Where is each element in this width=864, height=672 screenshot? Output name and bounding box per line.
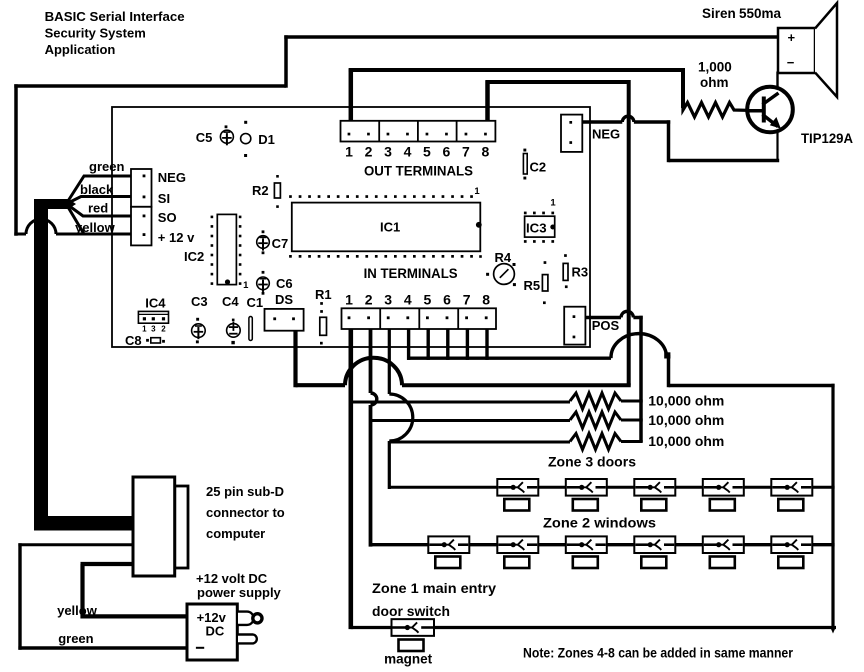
svg-text:DC: DC — [206, 624, 225, 639]
svg-text:SI: SI — [158, 191, 170, 206]
svg-text:yellow: yellow — [57, 603, 98, 618]
svg-text:−: − — [787, 55, 795, 70]
svg-text:3: 3 — [384, 144, 392, 160]
svg-text:C8: C8 — [125, 333, 142, 348]
svg-text:+: + — [788, 30, 796, 45]
svg-text:IC2: IC2 — [184, 249, 204, 264]
svg-text:8: 8 — [482, 144, 490, 160]
svg-text:D1: D1 — [258, 132, 275, 147]
svg-text:10,000 ohm: 10,000 ohm — [648, 413, 724, 428]
svg-text:4: 4 — [404, 292, 412, 308]
svg-text:R3: R3 — [572, 265, 589, 280]
svg-text:4: 4 — [404, 144, 412, 160]
svg-text:6: 6 — [443, 144, 451, 160]
svg-text:ohm: ohm — [700, 75, 729, 90]
svg-text:R2: R2 — [252, 183, 269, 198]
svg-text:IN TERMINALS: IN TERMINALS — [364, 266, 458, 281]
svg-text:Zone 2 windows: Zone 2 windows — [543, 516, 656, 531]
svg-text:8: 8 — [482, 292, 490, 308]
svg-text:7: 7 — [463, 292, 471, 308]
svg-text:R4: R4 — [495, 250, 512, 265]
svg-text:OUT TERMINALS: OUT TERMINALS — [364, 164, 473, 179]
svg-text:C6: C6 — [276, 276, 293, 291]
svg-text:3: 3 — [151, 325, 156, 334]
svg-text:1: 1 — [345, 292, 353, 308]
svg-text:7: 7 — [462, 144, 470, 160]
svg-text:green: green — [89, 159, 124, 174]
svg-text:5: 5 — [424, 292, 432, 308]
svg-text:1,000: 1,000 — [698, 60, 732, 75]
svg-text:C7: C7 — [272, 236, 289, 251]
svg-text:550ma: 550ma — [739, 6, 782, 21]
svg-text:red: red — [88, 201, 108, 216]
svg-text:+12 volt DC: +12 volt DC — [196, 571, 268, 586]
svg-text:TIP129A: TIP129A — [801, 131, 853, 146]
svg-text:IC4: IC4 — [145, 296, 166, 311]
svg-text:1: 1 — [345, 144, 353, 160]
svg-text:BASIC Serial Interface: BASIC Serial Interface — [45, 9, 185, 24]
svg-text:3: 3 — [384, 292, 392, 308]
svg-text:NEG: NEG — [158, 170, 186, 185]
svg-text:Siren: Siren — [702, 6, 736, 21]
svg-text:Application: Application — [45, 42, 116, 57]
svg-text:SO: SO — [158, 210, 177, 225]
svg-text:R1: R1 — [315, 287, 332, 302]
svg-text:1: 1 — [142, 325, 147, 334]
svg-text:2: 2 — [161, 325, 166, 334]
svg-text:10,000 ohm: 10,000 ohm — [648, 394, 724, 409]
svg-text:DS: DS — [275, 292, 293, 307]
svg-text:C2: C2 — [530, 160, 547, 175]
svg-text:C1: C1 — [247, 295, 264, 310]
svg-text:magnet: magnet — [384, 652, 433, 667]
svg-text:C4: C4 — [222, 294, 239, 309]
svg-text:POS: POS — [592, 318, 620, 333]
svg-text:C5: C5 — [196, 130, 213, 145]
svg-text:NEG: NEG — [592, 127, 620, 142]
svg-text:2: 2 — [365, 144, 373, 160]
svg-text:IC3: IC3 — [526, 221, 547, 236]
svg-text:2: 2 — [365, 292, 373, 308]
svg-text:10,000 ohm: 10,000 ohm — [648, 434, 724, 449]
svg-text:C3: C3 — [191, 294, 208, 309]
svg-text:IC1: IC1 — [380, 220, 400, 235]
svg-text:6: 6 — [443, 292, 451, 308]
svg-text:5: 5 — [423, 144, 431, 160]
svg-text:25 pin sub-D: 25 pin sub-D — [206, 484, 284, 499]
svg-text:Security System: Security System — [45, 26, 146, 41]
svg-text:green: green — [58, 631, 93, 646]
svg-text:Note: Zones 4-8 can be added i: Note: Zones 4-8 can be added in same man… — [523, 646, 794, 661]
svg-text:1: 1 — [474, 186, 480, 197]
svg-text:R5: R5 — [524, 278, 541, 293]
svg-text:Zone 3 doors: Zone 3 doors — [548, 455, 636, 470]
svg-text:yellow: yellow — [75, 220, 116, 235]
svg-text:+ 12 v: + 12 v — [158, 230, 195, 245]
svg-text:Zone 1 main entry: Zone 1 main entry — [372, 581, 497, 596]
svg-text:door switch: door switch — [372, 604, 450, 619]
svg-text:1: 1 — [550, 198, 556, 209]
svg-text:connector to: connector to — [206, 505, 285, 520]
svg-text:computer: computer — [206, 526, 265, 541]
svg-text:power supply: power supply — [197, 585, 282, 600]
svg-text:black: black — [80, 182, 114, 197]
svg-text:1: 1 — [243, 280, 249, 291]
